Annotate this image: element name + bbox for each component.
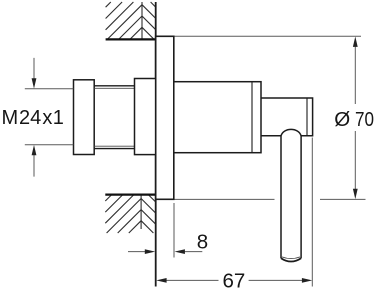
wall hatch bottom	[105, 195, 155, 233]
svg-text:Ø70: Ø70	[334, 108, 374, 131]
lever handle	[281, 129, 301, 261]
dim 8 right arrow	[175, 249, 203, 254]
dim 67 line right segment	[249, 278, 313, 283]
collar nut left	[74, 80, 95, 155]
dim O70 extension bottom left segment	[175, 198, 275, 200]
wall hatch top	[106, 2, 156, 39]
svg-text:67: 67	[222, 270, 245, 292]
dim O70 vertical line upper	[353, 37, 358, 105]
dim O70 extension bottom right segment	[320, 198, 366, 200]
thread M24 section	[94, 86, 134, 149]
dim O70 extension top	[175, 35, 362, 37]
dim 8 left arrow	[128, 249, 155, 254]
svg-text:8: 8	[197, 230, 208, 253]
dim 67 line left segment	[156, 278, 218, 283]
handle hub	[261, 98, 313, 136]
dim 67 right extension	[311, 138, 313, 287]
dim M24x1 extension top	[25, 88, 74, 90]
collar flange at wall	[135, 79, 156, 155]
dim 8 extension line	[173, 203, 175, 258]
dim M24x1 arrow top	[32, 58, 37, 89]
dim M24x1 extension bottom	[25, 144, 74, 146]
escutcheon plate	[156, 36, 174, 199]
dim M24x1 arrow bottom	[32, 145, 37, 177]
valve body cylinder	[174, 82, 261, 153]
wall face line / left extension	[155, 2, 157, 287]
svg-text:M24x1: M24x1	[2, 107, 64, 129]
dim O70 vertical line lower	[353, 131, 358, 199]
